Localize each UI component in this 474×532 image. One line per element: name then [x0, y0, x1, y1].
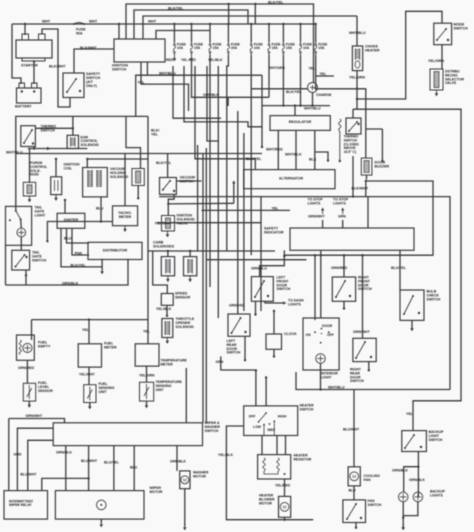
svg-text:LOW: LOW [253, 425, 262, 429]
label BLK [309, 158, 317, 162]
node vac-valve junction [167, 203, 169, 205]
choke heater oval [355, 61, 360, 68]
solenoid valve B (box) [132, 169, 144, 186]
wire wiper sw in2 [202, 422, 204, 424]
label BLU vhs [96, 207, 104, 211]
label YEL ign [138, 80, 146, 84]
label LOW [253, 425, 262, 429]
label WIPER MOTOR [150, 486, 163, 494]
label IGNITION COIL [64, 163, 80, 171]
svg-text:SPEEDSENSOR: SPEEDSENSOR [175, 292, 191, 300]
fuse F4 [227, 42, 229, 55]
svg-text:IGNITIONSWITCH: IGNITIONSWITCH [112, 64, 128, 72]
svg-text:BLK/YEL: BLK/YEL [286, 90, 302, 94]
svg-text:COOLINGFAN: COOLINGFAN [364, 474, 381, 482]
node bulbcheck pin [418, 312, 420, 314]
svg-text:M: M [352, 474, 356, 479]
wire trunk x206 [205, 148, 207, 423]
wire distributor bottom [101, 259, 103, 270]
wire vac sw out [168, 194, 174, 215]
cooling fan (box) [348, 467, 360, 486]
node vac sw pin [173, 190, 175, 192]
svg-text:FUSE15A: FUSE15A [286, 42, 296, 50]
wire trunk x148 [147, 116, 149, 343]
tail gate bulb [17, 228, 26, 237]
interior light contacts [314, 328, 330, 344]
svg-text:FUELMETER: FUELMETER [104, 342, 117, 350]
svg-text:TEMPERATURESENDINGUNIT: TEMPERATURESENDINGUNIT [156, 380, 183, 392]
EGR control solenoid (box) [67, 135, 78, 148]
node choke-y99 [356, 98, 358, 100]
carb solenoid 1 (box) [161, 257, 174, 276]
starter terminal tab 2 [39, 34, 46, 40]
node fan sw pin [360, 517, 362, 519]
label YEL safety [272, 206, 280, 210]
label TO DASH LIGHTS [288, 299, 304, 307]
label THERMO SWITCH (CLOSED ABOVE 18.5C) [344, 135, 360, 154]
svg-text:FUSE10A: FUSE10A [254, 42, 264, 50]
wire reg-alt WHT/RED [277, 130, 279, 169]
label CLOCK [284, 332, 297, 336]
label FAN SWITCH [368, 499, 382, 507]
label BLU/WHT ws [81, 459, 98, 463]
svg-text:WIPER &WASHERSWITCH: WIPER &WASHERSWITCH [205, 421, 221, 433]
wire safety input 3 [367, 197, 369, 228]
wire fuse8 lead [300, 24, 302, 42]
wire stop1 to box [322, 220, 324, 228]
svg-text:TO DASHLIGHTS: TO DASHLIGHTS [288, 299, 304, 307]
svg-text:GRN: GRN [216, 360, 224, 364]
label BLK/YEL mid3 [246, 157, 262, 161]
label BACKUP LIGHT SWITCH [429, 430, 445, 442]
wire WHT/BLU horizontal [262, 105, 330, 107]
label WIPER & WASHER SWITCH [205, 421, 221, 433]
wire ws out BLU [133, 446, 135, 491]
label WHT/BLU reg [304, 106, 321, 110]
svg-text:YEL: YEL [320, 72, 327, 76]
thermo bulb squiggle [339, 119, 342, 160]
wire WHT/BLU interior [296, 372, 450, 390]
ground below temp sending unit [145, 402, 149, 408]
label TO STOP LIGHTS 1 [308, 198, 324, 206]
ground below ignition coil [54, 195, 58, 201]
svg-text:ALTERNATOR: ALTERNATOR [279, 176, 304, 180]
svg-text:HIGH: HIGH [278, 415, 287, 419]
alternator (box) [244, 170, 335, 189]
node carb2 [189, 250, 191, 252]
label YEL/BLK speed [156, 307, 172, 311]
label WHT/GRN [269, 66, 286, 70]
label WHT 2 [89, 20, 98, 24]
ground below carb2 [188, 276, 192, 282]
svg-text:GRN/BLK: GRN/BLK [62, 282, 79, 286]
label BLU/YEL bulbcheck [391, 266, 407, 270]
label TACHO-METER [118, 211, 133, 219]
node clock bottom [273, 355, 275, 357]
fuse F3 [209, 42, 211, 55]
wire charge bottom [312, 93, 314, 106]
right rear door switch (box) [353, 338, 376, 361]
safety switch contact [66, 78, 77, 93]
label YEL fuse [309, 67, 316, 71]
svg-text:WHT/BLU: WHT/BLU [304, 106, 321, 110]
wire rfds feed GRN/RED [343, 255, 345, 277]
fuel empty indicator (box) [17, 335, 35, 360]
wire battery feed left rail [12, 24, 21, 84]
label YEL/GRN valve [428, 59, 444, 63]
svg-text:TAILGATELIGHT: TAILGATELIGHT [35, 206, 47, 218]
tacho meter (box) [113, 206, 138, 226]
wire safety to bulbcheck [399, 250, 401, 290]
svg-text:BACKUPLIGHTSWITCH: BACKUPLIGHTSWITCH [429, 430, 445, 442]
ground below washer motor [183, 524, 187, 530]
starter (box) [16, 40, 52, 58]
wire BLU/WHT wiper link [28, 440, 53, 490]
wire starter tab2 BLK/WHT [42, 29, 70, 107]
temperature sending unit (box) [140, 382, 154, 401]
svg-text:FUELSENDINGUNIT: FUELSENDINGUNIT [99, 382, 115, 394]
label FUSE 15A [213, 42, 223, 50]
wire backup feed [412, 415, 414, 431]
label WHT/BLU ign [159, 71, 176, 75]
label BLK/YEL top inner [168, 7, 184, 11]
ground below fuel level sensor [28, 402, 32, 408]
svg-text:WHT/BLU: WHT/BLU [349, 31, 366, 35]
svg-text:BLK/YEL: BLK/YEL [151, 129, 159, 137]
label BATTERY [15, 105, 32, 109]
wire fuel empty bottom GRN/RED [26, 360, 28, 383]
wire washer motor down [184, 489, 186, 526]
ignition coil (box) [51, 177, 62, 195]
svg-text:DISTRIBUTOR: DISTRIBUTOR [103, 249, 128, 253]
node thermo2-y196 [352, 195, 354, 197]
node f7 [282, 104, 284, 106]
node fuse9 top [315, 23, 317, 25]
svg-text:YEL-RED: YEL-RED [181, 58, 196, 62]
wire tail frame left [5, 245, 7, 285]
label YEL backup [406, 412, 414, 416]
node fuse5 top [250, 23, 252, 25]
wire buzzer stub [381, 129, 383, 161]
safety switch A/T (box) [63, 73, 84, 98]
label BACKUP LIGHTS [430, 490, 446, 498]
label YEL/GRN temp [139, 374, 155, 378]
svg-text:EGRCONTROLSOLENOID: EGRCONTROLSOLENOID [81, 135, 100, 147]
wire charge to buzzer y88.8 [318, 89, 366, 158]
svg-text:BLU: BLU [96, 207, 104, 211]
fuse F5 [250, 42, 252, 55]
wire vhs bottom BLU [100, 197, 102, 222]
wire tg switch to grnblk [25, 270, 27, 275]
label GRN/BLK tail [62, 282, 79, 286]
wire y4 drop to fuse5 [254, 4, 256, 24]
wire stair5 [217, 66, 219, 106]
svg-text:LEFTFRONTDOORSWITCH: LEFTFRONTDOORSWITCH [277, 276, 291, 292]
label GRN/BLK bk2 [409, 478, 425, 482]
svg-text:WHT/RED: WHT/RED [266, 148, 283, 152]
wire fuel unit gnd lead [89, 403, 91, 407]
wire WHT/BLU bus [261, 75, 263, 147]
wire tacho top [124, 154, 126, 206]
label FUSE 10A [303, 42, 313, 50]
wire GRN/BLK drop [227, 97, 229, 106]
EGR coil [71, 137, 75, 146]
svg-text:GRN/YEL: GRN/YEL [229, 304, 245, 308]
label BLU igniter [64, 237, 72, 241]
label BLK/WHT buzzer [352, 186, 369, 190]
wire solB bottom [137, 186, 139, 198]
fuel level sensor (box) [23, 383, 35, 401]
node rrds pin [370, 356, 372, 358]
node whtblu interior [319, 388, 321, 390]
svg-text:BLK/YEL: BLK/YEL [246, 157, 262, 161]
svg-text:WHT/BLK: WHT/BLK [285, 153, 302, 157]
right front door switch (box) [332, 277, 355, 301]
svg-text:BLU/WHT: BLU/WHT [20, 472, 37, 476]
label STARTER [21, 64, 38, 68]
svg-text:MODESWITCH: MODESWITCH [454, 23, 469, 31]
svg-text:TO STOPLIGHTS: TO STOPLIGHTS [308, 198, 324, 206]
svg-text:LEFTREARDOORSWITCH: LEFTREARDOORSWITCH [227, 339, 241, 355]
label BLU/WHT fan [343, 427, 360, 431]
svg-text:CLOCK: CLOCK [284, 332, 297, 336]
wire ws out BLU/WHT [88, 446, 90, 491]
washer motor symbol [181, 476, 189, 484]
label FUEL SENDING UNIT [99, 382, 115, 394]
label VACUUM HOLDING SOLENOID [110, 167, 129, 179]
wire top bus BLK/YEL outer (y4) [126, 4, 314, 82]
wire interior feed 2 [314, 255, 316, 320]
wire speed sensor bottom [166, 305, 168, 315]
intermittent wiper relay (box) [4, 491, 48, 519]
node igniter left end [46, 240, 48, 242]
label BLK/YEL charge [286, 90, 302, 94]
label BLK/YEL top outer [268, 1, 284, 5]
node safety switch pin [79, 90, 81, 92]
node backup gnd [402, 517, 404, 519]
thermo2 contact [348, 121, 358, 132]
label SAFETY INDICATOR [264, 227, 284, 235]
igniter (box) [57, 213, 85, 228]
svg-text:ON: ON [306, 333, 312, 337]
tail gate switch contact [15, 254, 26, 268]
label BLK/YEL dist [71, 263, 87, 267]
label RIGHT REAR DOOR SWITCH [350, 368, 364, 384]
fuel meter (box) [78, 344, 101, 367]
wire BLK/WHT inner loop [159, 197, 450, 390]
node backup junction [417, 466, 419, 468]
node safety bottom left [283, 255, 285, 257]
svg-text:IGNITIONSOLENOIDVALVE: IGNITIONSOLENOIDVALVE [177, 214, 196, 226]
label DOOR [322, 324, 333, 328]
wire y204 [168, 202, 234, 205]
label RIGHT FRONT DOOR SWITCH [358, 276, 372, 292]
svg-text:THERMOSWITCH(CLOSEDABOVE18.5°: THERMOSWITCH(CLOSEDABOVE18.5° C) [344, 135, 360, 154]
wire fuel sensor gnd lead [28, 401, 30, 404]
label MED [268, 428, 276, 432]
wire wiper sw in1 [185, 368, 187, 423]
label WHT/RED [266, 148, 283, 152]
label FUSE 20A [231, 42, 241, 50]
wire y222.7 [157, 222, 261, 224]
wire carb1 top [167, 251, 169, 257]
wire igniter BLU [67, 228, 90, 243]
door buzzer (box) [361, 158, 372, 175]
fuel empty bulb [23, 343, 32, 352]
fuse F9 [315, 42, 317, 55]
wire stair4 [207, 66, 218, 141]
wire speed sensor feed [153, 251, 168, 294]
wire ign coil top [55, 159, 57, 177]
wire starter to battery [33, 62, 35, 85]
heater switch (box) [244, 406, 298, 436]
svg-text:HEATERRESISTOR: HEATERRESISTOR [294, 454, 312, 462]
carb solenoid 2 (box) [184, 257, 197, 276]
svg-text:WHT: WHT [89, 20, 98, 24]
svg-text:BLU: BLU [64, 237, 72, 241]
svg-text:WHT: WHT [148, 20, 157, 24]
wire clock top [273, 311, 275, 334]
heater resistor (box) [258, 455, 291, 479]
label WHT/BLK [285, 153, 302, 157]
label OFF heater [249, 415, 256, 419]
wire igniter top [64, 200, 66, 213]
wire backup sw bottom [417, 452, 419, 497]
label EGR CONTROL SOLENOID [81, 135, 100, 147]
svg-text:GRN/BLK: GRN/BLK [203, 93, 219, 97]
label GRN/RED rfds [331, 266, 348, 270]
node fuse7 top [282, 23, 284, 25]
heater blower motor symbol [280, 502, 289, 511]
label GRN/BLU [251, 267, 267, 271]
svg-text:CHOKEHEATER: CHOKEHEATER [365, 45, 380, 53]
svg-text:DOOR: DOOR [322, 324, 333, 328]
svg-text:INTERIORLIGHT: INTERIORLIGHT [321, 372, 338, 380]
node vhs top [86, 158, 88, 160]
wire WHT/BLU row [136, 75, 262, 116]
label YEL/BLK [208, 58, 223, 62]
svg-text:SAFETYINDICATOR: SAFETYINDICATOR [264, 227, 284, 235]
ground below fuse1 [173, 55, 177, 61]
wire wiper motor gnd [100, 519, 102, 523]
wire trunk x211 (fuse3 out) [209, 55, 211, 287]
wire temp meter bottom [146, 366, 148, 382]
label GRN/BLK row [203, 93, 219, 97]
label GRN lrds [216, 360, 224, 364]
label DSTRBU RECNG SELECTOR VALVE [445, 70, 464, 86]
node reg top [294, 104, 296, 106]
wire fuse5 lead [250, 24, 252, 42]
label TAIL GATE LIGHT [35, 206, 47, 218]
svg-text:BLU/WHT: BLU/WHT [343, 427, 360, 431]
label GRN/RED [18, 366, 35, 370]
ground below selector valve [435, 90, 439, 96]
label YEL/BLK wiper [218, 453, 233, 457]
label FUSE 10A [177, 42, 187, 50]
svg-text:BACKUPLIGHTS: BACKUPLIGHTS [430, 490, 446, 498]
wire safety box drop [260, 250, 285, 276]
label YEL y76 [320, 72, 327, 76]
wire tail light feed stub [15, 206, 17, 210]
throttle opener solenoid (box) [162, 319, 173, 338]
wire lfds bottom [255, 301, 257, 314]
svg-text:FUSE15A: FUSE15A [272, 42, 282, 50]
wire YEL y76 branch [316, 75, 334, 77]
node carb1 [167, 250, 169, 252]
label PNK igniter [75, 251, 83, 255]
svg-text:GRN/BLK: GRN/BLK [170, 460, 186, 464]
label VACUUM SWITCH [180, 176, 196, 184]
svg-text:THROTTLEOPENERSOLENOID: THROTTLEOPENERSOLENOID [176, 317, 195, 329]
svg-text:HEATERBLOWERMOTOR: HEATERBLOWERMOTOR [259, 494, 275, 506]
svg-text:FANSWITCH: FANSWITCH [368, 499, 382, 507]
wiper motor (box) [55, 491, 144, 519]
label IGNITER [64, 218, 79, 222]
wire vac sw feed [167, 154, 169, 178]
svg-text:FUSE15A: FUSE15A [213, 42, 223, 50]
svg-text:VACUUMSWITCH: VACUUMSWITCH [180, 176, 196, 184]
wire buzzer to y196 [365, 181, 367, 197]
battery (box) [17, 88, 42, 103]
label FUSE 15A [318, 42, 328, 50]
ground below carb1 [166, 276, 170, 282]
svg-text:FUSE15A: FUSE15A [194, 42, 204, 50]
svg-text:BLU: BLU [130, 466, 138, 470]
wire reg BLK branch [315, 152, 328, 160]
ground below ign solenoid valve [166, 231, 170, 237]
svg-text:YEL/GRN: YEL/GRN [139, 374, 155, 378]
label THROTTLE OPENER SOLENOID [176, 317, 195, 329]
label COOLING FAN [364, 474, 381, 482]
node fuel meter top [88, 318, 90, 320]
node rfds bottom [343, 307, 345, 309]
battery terminal tab 1 [19, 83, 25, 88]
svg-text:WASHERMOTOR: WASHERMOTOR [193, 471, 209, 479]
svg-text:DSTRBURECNGSELECTORVALVE: DSTRBURECNGSELECTORVALVE [445, 70, 464, 86]
left front door switch (box) [251, 277, 273, 302]
cooling fan motor symbol [350, 472, 359, 481]
svg-text:BATTERY: BATTERY [15, 105, 32, 109]
VHS coil A [88, 170, 92, 187]
svg-text:FUELEMPTY: FUELEMPTY [38, 341, 51, 349]
svg-text:GRN/RED: GRN/RED [331, 266, 348, 270]
wire trunk x227 (fuse4 out) [227, 55, 229, 251]
label IGNITION SOLENOID VALVE [177, 214, 196, 226]
node fuse6 top [268, 23, 270, 25]
wire y4 drop to fuse4 [228, 4, 230, 24]
label BLU/YEL ws [104, 461, 120, 465]
label INTERMITTENT WIPER RELAY [9, 499, 33, 507]
svg-text:BLK/WHT: BLK/WHT [49, 65, 66, 69]
label GRN/BLK washer [170, 460, 186, 464]
wire top bus BLK/YEL inner (y10) [134, 10, 248, 39]
node interior feed 2 [314, 254, 316, 256]
wire charge left BLK/YEL [251, 88, 307, 90]
ground below bulb check [410, 325, 414, 331]
node f9 [315, 88, 317, 90]
wire safety to interior [320, 250, 322, 318]
node below thermo [33, 147, 35, 149]
thermo switch (box) [21, 126, 36, 147]
svg-text:YEL: YEL [143, 330, 151, 334]
label BLK/YEL vacsw [156, 161, 172, 165]
svg-text:YEL/BLK: YEL/BLK [156, 307, 172, 311]
wire fuel meter bottom YEL/WHT [88, 367, 90, 385]
node rrds bottom [368, 369, 370, 371]
wire fuel meter feed YEL [88, 320, 90, 344]
wire fan BLU [353, 486, 355, 500]
label GRN wiper [14, 453, 22, 457]
